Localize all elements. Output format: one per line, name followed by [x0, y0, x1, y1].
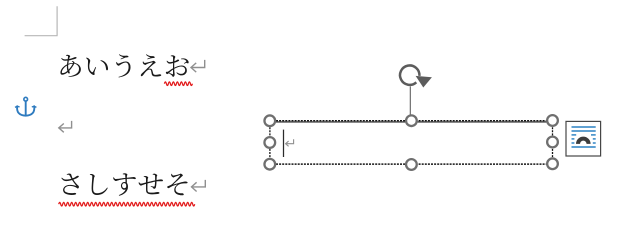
text box dashed border top edge	[270, 121, 553, 123]
rotation handle circular arrow icon	[400, 65, 419, 84]
layout options button frame	[566, 121, 601, 156]
paragraph mark on empty line 2	[59, 121, 72, 128]
selection handle bottom-left	[264, 159, 275, 170]
selection handle bottom-center	[406, 159, 417, 170]
text cursor inside text box	[283, 130, 285, 157]
body text line 1 あいうえお	[60, 54, 188, 77]
text box dashed border bottom edge	[270, 163, 553, 165]
page corner margin mark	[25, 6, 58, 35]
text box dashed border right edge	[552, 121, 554, 164]
layout options icon: text lines with square-wrapped object arch	[572, 126, 596, 128]
selection handle bottom-right	[547, 158, 558, 169]
selection handle top-right	[547, 115, 558, 126]
selection handle top-center	[406, 115, 417, 126]
object anchor icon	[15, 97, 36, 115]
text box dashed border left edge	[269, 121, 271, 164]
selection handle top-left	[264, 115, 275, 126]
small paragraph mark inside text box	[286, 139, 294, 144]
red spelling squiggle under お	[164, 82, 192, 86]
paragraph mark after line 3	[191, 180, 205, 187]
selection handle mid-left	[264, 137, 275, 148]
red spelling squiggle under さしすせそ	[59, 202, 195, 206]
body text line 3 さしすせそ	[61, 173, 187, 195]
paragraph mark after line 1	[191, 60, 205, 68]
rotation handle stem	[409, 86, 411, 114]
selection handle mid-right	[547, 137, 558, 148]
